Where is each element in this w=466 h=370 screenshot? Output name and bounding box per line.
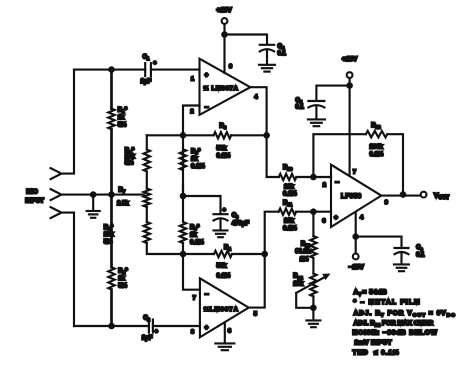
wire U1 output to R10 (250, 87, 278, 177)
svg-text:+: + (205, 325, 209, 332)
mic connector prong middle (51, 189, 62, 200)
svg-text:+: + (155, 329, 159, 335)
R14 wiper arrow (296, 277, 325, 293)
node R4 right (261, 251, 268, 258)
ground (C3) (214, 229, 228, 231)
wire U1 pin 2 stub (183, 106, 200, 136)
wire left bus (110, 70, 113, 326)
node pin2/R8 (180, 132, 187, 139)
svg-text:2: 2 (190, 109, 193, 115)
svg-text:3: 3 (224, 125, 227, 130)
svg-text:5: 5 (254, 312, 258, 318)
svg-text:10k: 10k (284, 184, 295, 190)
wire bottom row (pin 8 row) (74, 325, 200, 327)
svg-text:12: 12 (376, 125, 382, 130)
-15V supply terminal (353, 254, 359, 260)
svg-text:+15V: +15V (216, 7, 232, 14)
node R14 bottom (310, 305, 317, 312)
node output (400, 191, 407, 198)
resistor R11 (279, 209, 297, 215)
svg-text:5%: 5% (118, 284, 127, 290)
wire R11 to pin 3 (296, 211, 331, 213)
svg-text:10k: 10k (125, 154, 136, 160)
wire non-inverting row U2 (183, 253, 265, 255)
svg-text:4: 4 (360, 215, 364, 221)
svg-text:5%: 5% (125, 160, 134, 166)
svg-text:6: 6 (385, 200, 389, 206)
svg-text:4: 4 (228, 247, 231, 252)
svg-text:0.1: 0.1 (416, 253, 425, 259)
node -15V branch (352, 233, 359, 240)
svg-text:1: 1 (147, 56, 150, 61)
ground (C4) (259, 64, 275, 66)
wire U2 pin 3 ground stem (224, 323, 226, 344)
svg-text:+: + (223, 208, 227, 214)
svg-text:7: 7 (123, 189, 126, 194)
node R9 bottom / pin7 riser (180, 251, 187, 258)
svg-text:+: + (334, 214, 338, 221)
svg-text:MIC: MIC (26, 189, 38, 196)
resistor R6 (144, 222, 150, 243)
node R2 bottom (108, 323, 115, 330)
svg-text:10: 10 (287, 167, 293, 172)
svg-text:10k: 10k (293, 281, 304, 287)
svg-text:10k: 10k (104, 232, 115, 238)
svg-text:5%: 5% (118, 123, 127, 129)
svg-text:2.5k: 2.5k (117, 201, 129, 207)
svg-text:2: 2 (147, 317, 150, 322)
svg-text:4: 4 (282, 45, 285, 50)
svg-text:−: − (205, 105, 209, 112)
svg-text:−15V: −15V (349, 264, 365, 271)
node R3 right (263, 132, 270, 139)
wire mic top to C1 row (61, 70, 74, 174)
resistor R5 (144, 150, 150, 172)
wire chain top (147, 135, 183, 254)
capacitor C2 (148, 320, 150, 333)
svg-text:0.1: 0.1 (278, 51, 287, 57)
wire mic middle to R7 wiper (61, 194, 144, 196)
svg-text:6: 6 (229, 64, 233, 70)
svg-text:1μF: 1μF (141, 79, 152, 85)
svg-text:0.1: 0.1 (295, 105, 304, 111)
svg-text:+: + (205, 72, 209, 79)
op-amp U1 ½ LM387A (200, 59, 251, 115)
capacitor C4 (260, 44, 274, 46)
svg-text:4: 4 (254, 95, 258, 101)
resistor R13 (310, 236, 316, 258)
wire C3 branch (183, 196, 221, 214)
node bus / wiper junction (108, 191, 115, 198)
svg-text:THD ≤ 0.1%: THD ≤ 0.1% (353, 349, 400, 356)
resistor R2 (108, 267, 114, 289)
svg-text:0.1%: 0.1% (217, 274, 231, 280)
svg-text:2: 2 (323, 183, 326, 189)
svg-text:13: 13 (305, 243, 311, 248)
resistor R8 (180, 135, 186, 196)
svg-text:6: 6 (420, 247, 423, 252)
svg-text:*: * (125, 268, 128, 274)
svg-text:3: 3 (236, 215, 239, 220)
wire U2 pin 7 stub (183, 254, 200, 290)
svg-text:1k: 1k (191, 157, 198, 163)
capacitor C1 (144, 63, 146, 76)
resistor R9 (180, 183, 186, 254)
node C5 branch (346, 82, 353, 89)
svg-text:*: * (198, 149, 201, 155)
svg-text:INPUT: INPUT (25, 197, 44, 204)
ground (U2 pin 3) (215, 342, 234, 344)
svg-text:½LM387A: ½LM387A (204, 306, 239, 313)
output terminal (421, 192, 427, 198)
resistor R4 (214, 251, 232, 257)
svg-text:10k: 10k (284, 219, 295, 225)
svg-text:2mV INPUT: 2mV INPUT (355, 340, 392, 347)
node R1 top (108, 66, 115, 73)
svg-text:11: 11 (287, 202, 292, 207)
wire feedback riser (313, 134, 366, 177)
svg-text:1%: 1% (300, 257, 309, 263)
svg-text:8: 8 (191, 330, 195, 336)
ground (C5) (308, 118, 325, 120)
wire inverting input row U1 (147, 134, 267, 136)
node R13 junction (310, 208, 317, 215)
svg-text:ADJ. R14 FOR MAX CMRR: ADJ. R14 FOR MAX CMRR (354, 320, 434, 329)
svg-text:470μF: 470μF (232, 221, 250, 227)
svg-text:VOUT: VOUT (434, 193, 449, 202)
svg-text:3: 3 (322, 219, 326, 225)
wire ground stem (92, 195, 94, 211)
node feedback junction (310, 174, 317, 181)
ground (C6) (394, 263, 409, 265)
svg-text:1k: 1k (118, 276, 125, 282)
svg-text:½ LM387A: ½ LM387A (204, 85, 239, 92)
resistor R10 (279, 174, 297, 180)
wire top row (pin 1 row) (74, 69, 200, 71)
wire R14 wiper to bottom (296, 293, 313, 320)
svg-text:0.1%: 0.1% (191, 164, 205, 170)
svg-text:*: * (111, 225, 114, 231)
svg-text:7: 7 (353, 170, 356, 176)
node at +15V branch (221, 31, 228, 38)
capacitor C5 (308, 100, 324, 102)
svg-text:7: 7 (193, 296, 196, 302)
resistor R1 (108, 109, 114, 130)
mic connector prong top (51, 168, 62, 179)
svg-text:0.1%: 0.1% (217, 154, 231, 160)
wire U3 pin 4 stub (356, 213, 402, 254)
svg-text:0.1%: 0.1% (283, 226, 297, 232)
svg-text:1k: 1k (190, 232, 197, 238)
svg-text:93.1k: 93.1k (295, 249, 311, 255)
svg-text:ADJ. R7 FOR VOUT = 0VDC: ADJ. R7 FOR VOUT = 0VDC (354, 310, 456, 319)
ground (R14) (306, 319, 320, 321)
svg-text:LF356: LF356 (341, 194, 362, 200)
potentiometer R14 (310, 274, 316, 297)
svg-text:14: 14 (298, 275, 304, 280)
svg-text:*: * (197, 225, 200, 231)
potentiometer R7 (144, 189, 150, 208)
svg-text:1k: 1k (118, 115, 125, 121)
op-amp U2 ½ LM387A (200, 278, 249, 337)
svg-text:+: + (153, 61, 157, 67)
resistor R3 (214, 132, 232, 138)
op-amp U3 LF356 (331, 165, 381, 227)
resistor R12 (366, 131, 387, 137)
svg-text:+15V: +15V (342, 56, 358, 63)
svg-text:−: − (335, 179, 339, 186)
svg-text:= 54dB: = 54dB (363, 289, 388, 296)
svg-text:NOISE: −63dB BELOW: NOISE: −63dB BELOW (353, 330, 438, 337)
wire R10 to pin 2 (296, 176, 331, 178)
wire pin3 node to R13 (312, 212, 314, 236)
svg-text:0.1%: 0.1% (190, 240, 204, 246)
svg-text:0.1%: 0.1% (283, 192, 297, 198)
wire +15V to U1 pin 6 and C4 branch (225, 24, 268, 73)
wire U3 output (381, 195, 420, 197)
svg-text:3: 3 (228, 329, 232, 335)
svg-text:0.1%: 0.1% (370, 152, 384, 158)
wire R12 to output (387, 134, 403, 194)
svg-text:100k: 100k (370, 145, 384, 151)
svg-text:*: * (125, 108, 128, 114)
wire R13 to R14 (312, 258, 314, 274)
svg-text:50k: 50k (217, 146, 228, 152)
capacitor C3 (214, 213, 228, 215)
svg-text:1μF: 1μF (142, 336, 153, 342)
ground (input) (87, 210, 100, 212)
wire mic bottom to C2 row (61, 213, 74, 326)
svg-text:5%: 5% (104, 239, 113, 245)
wire U2 output to R11 (249, 212, 279, 308)
svg-text:1: 1 (191, 77, 195, 83)
capacitor C6 (395, 247, 409, 249)
svg-text:50k: 50k (217, 263, 228, 269)
node ground tap (90, 191, 97, 198)
mic connector prong bottom (51, 207, 62, 218)
svg-text:−: − (205, 292, 209, 299)
wire +15V to U3 pin 7 (316, 78, 349, 176)
svg-text:AV: AV (354, 289, 363, 298)
node R8/R9/C3 (180, 193, 187, 200)
svg-text:* – METAL FILM: * – METAL FILM (354, 299, 421, 306)
